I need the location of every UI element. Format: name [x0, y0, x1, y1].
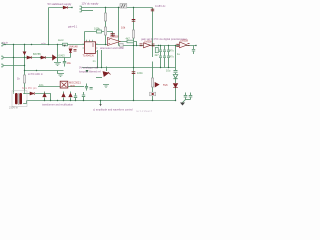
svg-text:ref in: ref in [41, 42, 47, 45]
svg-text:47u: 47u [170, 49, 175, 53]
svg-text:4k7: 4k7 [155, 53, 160, 57]
svg-text:sig in: sig in [2, 40, 9, 44]
svg-text:gain=5.1: gain=5.1 [68, 26, 78, 29]
svg-text:5V stabilised supply: 5V stabilised supply [48, 2, 72, 6]
svg-text:12V dc supply: 12V dc supply [82, 2, 100, 6]
svg-text:100n: 100n [137, 71, 143, 75]
svg-text:10u: 10u [67, 61, 72, 65]
svg-text:LM358: LM358 [111, 34, 119, 38]
svg-text:47u: 47u [170, 55, 175, 59]
svg-text:LM358: LM358 [180, 39, 188, 43]
svg-text:0-18V dc: 0-18V dc [155, 4, 166, 8]
svg-text:4k7: 4k7 [126, 37, 131, 41]
svg-text:10k: 10k [121, 26, 126, 30]
svg-text:LM358: LM358 [144, 39, 152, 43]
svg-text:BAT85: BAT85 [33, 52, 41, 56]
svg-text:10n: 10n [39, 83, 44, 87]
svg-text:1N4148: 1N4148 [69, 45, 79, 49]
svg-text:lowpass filtered ref: lowpass filtered ref [79, 69, 101, 73]
svg-text:c) amplitude and waveform cont: c) amplitude and waveform control [93, 108, 133, 112]
svg-text:opto: opto [70, 84, 76, 88]
svg-text:TL494CN: TL494CN [83, 54, 94, 58]
svg-text:230V in: 230V in [9, 105, 18, 109]
svg-text:from PIC pin: from PIC pin [22, 86, 37, 90]
svg-text:to PIC ADC in: to PIC ADC in [28, 73, 43, 76]
svg-text:5V6: 5V6 [163, 83, 168, 87]
svg-text:10u: 10u [166, 69, 171, 73]
svg-text:100k: 100k [94, 26, 100, 30]
svg-text:transformer and rectification: transformer and rectification [42, 103, 74, 106]
svg-text:attenuator and buffer: attenuator and buffer [100, 46, 124, 50]
svg-text:rev 1.2 sheet 3: rev 1.2 sheet 3 [136, 110, 152, 113]
svg-text:0V63: 0V63 [59, 54, 66, 58]
svg-text:level: level [58, 38, 64, 42]
svg-text:0V analogue rail: 0V analogue rail [79, 66, 98, 70]
